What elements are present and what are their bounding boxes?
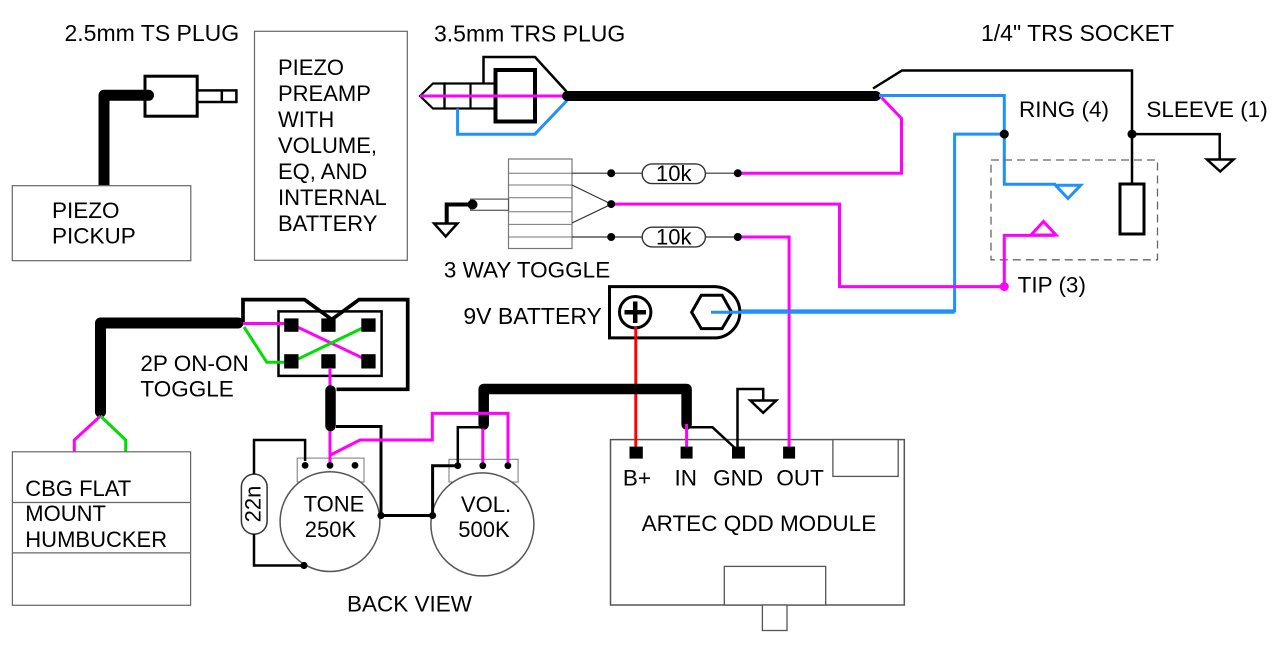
svg-text:1/4" TRS SOCKET: 1/4" TRS SOCKET (981, 20, 1174, 46)
svg-text:IN: IN (675, 466, 698, 491)
potentiometer VR2 vol lug plate (449, 459, 518, 482)
pin SW2 top-left (284, 318, 298, 331)
node toggle row1 left (607, 169, 615, 177)
svg-text:10k: 10k (656, 225, 692, 250)
svg-text:TIP (3): TIP (3) (1018, 273, 1086, 298)
wire signal cable (thick) vol wiper to module IN (484, 389, 687, 425)
wire sleeve to ground (1132, 134, 1220, 159)
node vol lug 2 (479, 462, 486, 469)
wire magenta humbucker lead (74, 416, 100, 452)
svg-text:22n: 22n (240, 486, 265, 523)
svg-text:PREAMP: PREAMP (278, 81, 371, 106)
battery BT1 9V body (610, 287, 740, 338)
node R2 right (734, 233, 742, 241)
node vol lug 1 (454, 462, 461, 469)
wire magenta cable to IN pin (685, 424, 688, 447)
wire lever to ground (447, 205, 473, 223)
pin SW2 top-right (361, 318, 375, 331)
ground (3 way toggle) (434, 224, 457, 237)
module U1 ARTEC QDD box (611, 440, 905, 631)
svg-text:BATTERY: BATTERY (278, 211, 378, 236)
node tone lug 1 (302, 462, 309, 469)
svg-text:VOLUME,: VOLUME, (278, 133, 377, 158)
wire C1 top to tone lug1 (254, 440, 305, 474)
node tip junction (1000, 282, 1009, 291)
svg-text:3 WAY TOGGLE: 3 WAY TOGGLE (444, 258, 610, 283)
svg-text:TOGGLE: TOGGLE (140, 376, 233, 401)
wire shield drain to GND pin (688, 427, 736, 449)
svg-text:500K: 500K (458, 517, 510, 542)
node ring junction (1000, 130, 1009, 139)
wire blue sleeve lead of 3.5mm plug (458, 101, 567, 135)
node vol lug 3 (505, 462, 512, 469)
svg-text:9V BATTERY: 9V BATTERY (463, 303, 601, 329)
resistor R2 10k (642, 227, 705, 247)
wire black sleeve from cable to socket sleeve (873, 71, 1132, 185)
switch SW2 2P toggle inner body (279, 311, 382, 376)
label CBG FLAT MOUNT HUMBUCKER (25, 476, 167, 552)
svg-text:EQ, AND: EQ, AND (278, 159, 367, 184)
node tone lug 2 (327, 462, 334, 469)
wire blue cable to ring junction (879, 96, 1056, 185)
svg-text:2.5mm TS PLUG: 2.5mm TS PLUG (65, 20, 240, 46)
node C1 to casing solder (300, 562, 307, 569)
wire GND pin to ground symbol (738, 389, 764, 447)
svg-text:MOUNT: MOUNT (25, 501, 106, 526)
wire piezo cable (thick) from plug to piezo pickup (104, 95, 149, 187)
pin SW2 top-center (321, 318, 335, 331)
svg-text:B+: B+ (623, 466, 651, 491)
svg-text:WITH: WITH (278, 107, 334, 132)
potentiometer VR1 tone body (280, 472, 380, 572)
potentiometer VR2 vol body (431, 473, 534, 576)
box piezo pickup (12, 186, 191, 261)
wire blue battery negative (711, 311, 955, 314)
wire magenta SW2 output to tone wiper (329, 368, 332, 465)
wire magenta vol wiper to cable (481, 429, 484, 466)
wire green humbucker to SW2 (244, 325, 368, 362)
connector P1 2.5mm TS plug body (145, 76, 236, 116)
connector P2 3.5mm TRS plug (420, 57, 567, 122)
node sleeve junction (1128, 130, 1137, 139)
wire magenta tip junction up to tip contact (1004, 235, 1055, 286)
node toggle common (607, 200, 615, 208)
ground (module) (750, 401, 776, 413)
wire shield to tone casing (336, 427, 381, 516)
svg-text:VOL.: VOL. (461, 492, 511, 517)
wire vol lug1 to shield (458, 427, 480, 465)
resistor R1 10k (642, 164, 705, 184)
arrow ring contact (blue) (1055, 185, 1080, 198)
pin SW2 bottom-center (321, 354, 335, 368)
node tone lug 3 (352, 462, 359, 469)
svg-text:TONE: TONE (304, 491, 365, 516)
wire magenta toggle common to tip (611, 204, 1004, 287)
pin OUT (783, 447, 795, 459)
wire tone cable jacket (thick capsule) (325, 391, 336, 427)
node toggle lever terminal (468, 200, 478, 210)
svg-text:HUMBUCKER: HUMBUCKER (25, 527, 167, 552)
wire red battery positive to B+ (634, 327, 637, 447)
svg-text:GND: GND (713, 466, 763, 491)
node toggle row3 left (607, 233, 615, 241)
wire blue ring junction to battery negative (712, 134, 1005, 311)
switch SW1 3 way toggle body (471, 159, 572, 249)
wire vol lug1 to vol casing (433, 466, 458, 516)
node tone casing solder (377, 512, 384, 519)
svg-text:PIEZO: PIEZO (278, 55, 344, 80)
arrow tip contact (magenta) (1031, 222, 1056, 236)
svg-text:BACK VIEW: BACK VIEW (347, 592, 473, 617)
svg-text:PICKUP: PICKUP (52, 224, 136, 249)
wire black shield loop around 2P toggle (243, 300, 408, 390)
wire C1 bottom to tone casing (254, 534, 304, 566)
wire toggle contact 3 (572, 236, 642, 238)
dashed outline socket body (991, 160, 1158, 260)
pin GND (732, 447, 745, 459)
wire magenta tip lead through 3.5mm plug (420, 95, 566, 98)
battery negative terminal (hexagon) (692, 295, 732, 328)
node vol casing solder (429, 512, 436, 519)
pin SW2 bottom-left (284, 354, 298, 368)
svg-text:OUT: OUT (776, 466, 824, 491)
svg-text:PIEZO: PIEZO (52, 198, 120, 223)
box piezo preamp (255, 31, 408, 260)
wire R1 to magenta (705, 172, 737, 174)
pin IN (681, 447, 693, 459)
svg-text:RING (4): RING (4) (1019, 97, 1109, 122)
svg-text:ARTEC QDD MODULE: ARTEC QDD MODULE (642, 511, 877, 536)
capacitor C1 22n (241, 474, 267, 534)
battery positive terminal (620, 297, 651, 328)
label B+ IN GND OUT (623, 466, 824, 491)
wire magenta R1 to cable tip lead (738, 98, 902, 174)
wire magenta tone wiper branch to vol lug3 (331, 413, 509, 464)
svg-text:10k: 10k (656, 161, 692, 186)
humbucker cable (thick) to 2P toggle (101, 323, 239, 412)
potentiometer VR1 tone lug plate (297, 458, 364, 482)
node R1 right (734, 169, 742, 177)
svg-text:INTERNAL: INTERNAL (278, 185, 387, 210)
wire green humbucker lead (101, 416, 126, 452)
wire R2 to magenta (705, 236, 737, 238)
wire main cable (thick) 3.5mm plug to socket (567, 91, 876, 101)
svg-text:CBG FLAT: CBG FLAT (25, 476, 131, 501)
label 2P ON-ON TOGGLE (140, 351, 248, 401)
pin B+ (630, 447, 643, 459)
pin SW2 bottom-right (361, 354, 375, 368)
box CBG flat mount humbucker (12, 452, 190, 606)
svg-text:SLEEVE (1): SLEEVE (1) (1146, 97, 1267, 122)
svg-text:2P ON-ON: 2P ON-ON (140, 351, 248, 376)
svg-text:250K: 250K (305, 517, 357, 542)
wire tone casing to vol casing (381, 514, 433, 517)
socket sleeve contact (1120, 184, 1144, 234)
wire magenta R2 to module OUT (738, 237, 789, 447)
svg-text:3.5mm TRS PLUG: 3.5mm TRS PLUG (434, 21, 625, 47)
label PIEZO PREAMP WITH VOLUME, EQ, AND INTERNAL BATTERY (278, 55, 387, 236)
wire toggle middle contacts join (572, 185, 610, 223)
ground (sleeve) (1207, 160, 1234, 172)
wire toggle contact 1 (572, 172, 642, 174)
wire magenta humbucker hot to SW2 (243, 324, 369, 361)
